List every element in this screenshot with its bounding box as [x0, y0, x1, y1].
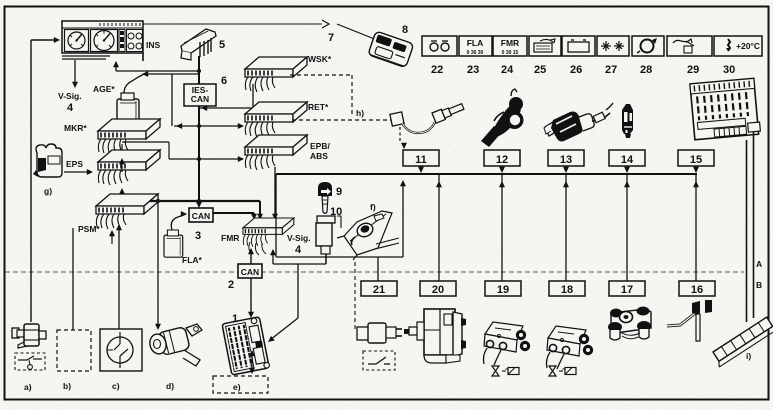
box 21: [361, 281, 397, 296]
wire: f) box to box 21: [377, 257, 379, 281]
box 12: [484, 150, 520, 173]
wire: CAN2 down to ECU 1: [248, 278, 254, 318]
wire: mid connector pins up-arrow: [119, 188, 125, 203]
AGE relay and wire: [93, 71, 199, 125]
box 11: [403, 150, 439, 173]
FMR connector: [221, 218, 294, 255]
wire: WSK branch (y108): [199, 84, 253, 111]
f) dashboard sketch: [337, 202, 399, 260]
FLA relay and wire to CAN3: [164, 211, 203, 265]
legend box 29: [667, 36, 712, 76]
wire: up-arrow into PSM pins from below: [109, 230, 115, 244]
dashed link WSK to h): [290, 75, 352, 117]
component 18 icon: valve block: [546, 326, 593, 369]
component 20 icon: pump assembly: [404, 309, 466, 363]
wire: top line to 7 / 8: [143, 20, 377, 44]
legend box 26: [562, 36, 595, 76]
box 17: [609, 281, 645, 296]
component 14 icon: small sensor: [622, 104, 633, 138]
wire: vertical to d): [155, 201, 161, 330]
middle connector (EPS target): [98, 150, 160, 185]
component 8 control unit: [368, 31, 414, 68]
wire: vertical x172 from AGE row down to RET row: [171, 74, 173, 126]
18 valve symbol: [549, 366, 576, 376]
component c) clutch switch box: [100, 329, 142, 391]
CAN box 2: [228, 264, 262, 291]
f) sub-region box: [276, 174, 403, 257]
wire: CAN3 to FMR: [213, 213, 257, 220]
box 15: [678, 150, 714, 173]
wire: left main vertical to a): [31, 37, 60, 322]
lock cylinder 10: [316, 216, 341, 264]
main bus y174: [276, 173, 697, 175]
wire: MKR to EPB row link: [122, 142, 169, 159]
legend box 24 FMR: [493, 36, 527, 76]
V-Sig. 4 arrow below INS: [58, 60, 82, 114]
legend box 25: [529, 36, 561, 76]
component 5 overhead connector: [181, 29, 225, 60]
component e) dashed box: [213, 376, 268, 393]
wire: INS up-arrow branch: [113, 61, 201, 73]
wire: EPB branch (y159): [169, 156, 244, 162]
EPS device g): [33, 144, 93, 196]
bus risers to lower boxes: [439, 174, 696, 281]
component 13 icon: switch with cable: [544, 103, 613, 142]
component b) dashed box: [57, 330, 91, 391]
component 19 icon: valve block: [483, 322, 530, 365]
wire: FMR right pin to y264 run: [266, 249, 326, 344]
legend box 23 FLA: [459, 36, 492, 76]
wire: FMR pins to CAN2: [248, 248, 254, 264]
CAN box 3: [189, 208, 213, 242]
component 11 icon: cable: [390, 101, 465, 133]
legend box 22: [422, 36, 457, 76]
component 1 ECU: [222, 313, 270, 375]
WSK connector: [245, 54, 332, 92]
component 17 icon: bearing bracket: [608, 307, 651, 341]
component a) sensor: [12, 324, 46, 392]
component 15 icon: fuse box: [690, 78, 761, 140]
box 14: [609, 150, 645, 173]
legend box 27: [597, 36, 629, 76]
box 13: [548, 150, 584, 173]
legend box 30: [714, 36, 762, 76]
wire: thick PSM-FMR bus y201: [150, 199, 263, 220]
component 16 icon: pipe sensor: [667, 300, 712, 341]
component i) ladder strip: [710, 317, 773, 367]
wire: EPB down to FMR: [272, 167, 278, 220]
19 valve symbol: [492, 366, 519, 376]
wire: MKR pins up-arrow from EPS row: [119, 158, 125, 172]
IES-CAN box 6: [184, 75, 227, 106]
wire: main trunk vertical: [198, 56, 200, 206]
box 19: [485, 281, 521, 296]
component d) servo motor: [148, 324, 202, 391]
PSM connector: [78, 194, 158, 234]
MKR connector: [64, 119, 160, 154]
component 21 icon: pressure switch: [357, 323, 402, 370]
wire: RET branch (y126): [174, 123, 244, 129]
box 16: [679, 281, 715, 296]
wire: ECU to e) double arrow: [249, 350, 255, 374]
wire: right double bar: [747, 132, 754, 322]
wire: vertical from c) up to PSM: [116, 224, 122, 329]
box 20: [420, 281, 456, 296]
instrument cluster INS: [62, 21, 161, 61]
RET connector: [245, 102, 329, 137]
legend box 28: [632, 36, 664, 76]
box 18: [549, 281, 585, 296]
wire: vertical to b): [72, 228, 74, 330]
key 9: [318, 182, 342, 218]
dashed link RET row to component 11: [292, 119, 392, 121]
dashed A/B divider line: [5, 271, 744, 273]
dashed wire to 21 sensor: [354, 262, 356, 330]
EPB/ABS connector: [245, 135, 330, 170]
component 12 icon: pedal: [481, 89, 524, 147]
